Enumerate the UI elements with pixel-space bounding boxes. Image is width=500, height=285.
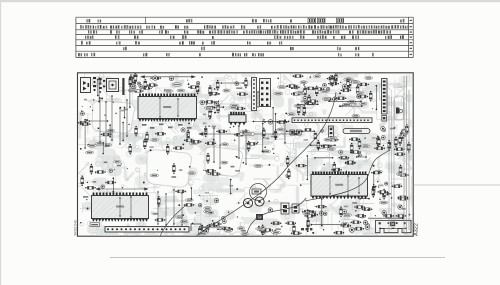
- bottom far right parts (resistors, capacitors, diodes): [380, 182, 408, 217]
- pour clearance lakes (centre-left): [92, 101, 243, 187]
- right edge vertical tracks: [404, 76, 409, 234]
- electrolytic capacitors C1/C2 (bottom centre cans): [243, 197, 264, 220]
- table row 5 entries: [81, 41, 412, 45]
- shield outline (bottom centre cutout): [191, 224, 226, 231]
- vertical link wires left-mid: [99, 95, 247, 169]
- link wires across IC bodies: [119, 91, 359, 217]
- trimmer T1 (circular part, bottom centre): [250, 184, 267, 201]
- ruled line below board: [110, 257, 445, 259]
- edge connector X2 (bottom left pin strip): [105, 227, 189, 232]
- solder pads / vias: [80, 75, 410, 234]
- sparse centre-left parts (resistors, capacitors, diodes): [101, 160, 196, 193]
- parts row under bar X1: [290, 126, 334, 140]
- table row 4 entries: [85, 35, 412, 39]
- scan edge left: [0, 0, 1, 285]
- wire links with solder dots: [84, 77, 377, 232]
- table row 1 column divider: [145, 17, 147, 23]
- table row 2 entries: [80, 25, 412, 29]
- svg-text:A322: A322: [414, 223, 420, 236]
- vertical module V1 (tall pinned strip): [252, 78, 257, 111]
- transistor module Q1 (top left box): [81, 78, 91, 93]
- connector X3 (bottom right boxed module): [368, 217, 411, 232]
- horizontal arrowed wire above U4: [96, 188, 148, 190]
- top right dense parts (resistors, capacitors, diodes): [314, 72, 373, 117]
- bottom right parts (resistors, capacitors, diodes): [316, 205, 373, 234]
- transistor module Q2 (top left box #2): [107, 79, 119, 92]
- parts right of U3 (resistors, capacitors, diodes): [372, 184, 388, 204]
- right margin tracks and module (far right): [389, 95, 404, 232]
- parts around U2 right (resistors, capacitors, diodes): [262, 113, 295, 140]
- top-left small parts (resistors, capacitors, diodes): [128, 73, 144, 92]
- scan edge top: [0, 0, 500, 2]
- parts right of V2 (resistors, capacitors, diodes): [274, 75, 319, 116]
- centre parts above trimmer (resistors, capacitors, diodes): [254, 150, 307, 179]
- horizontal module M1 (rounded bar under X1): [343, 129, 370, 134]
- IC U4 (large DIL IC, bottom left): [92, 193, 149, 222]
- horizontal linking wire centre (with arrows): [199, 133, 298, 136]
- parts column between Q1 and Q2: [93, 77, 105, 93]
- table row 7 entries: [78, 53, 412, 57]
- ruled line right of board: [413, 184, 500, 186]
- upper centre-right extra parts (resistors, capacitors, diodes): [294, 68, 351, 101]
- svg-text:3A322 040: 3A322 040: [73, 220, 77, 236]
- component designator labels: [83, 87, 406, 231]
- curved wire left mid: [160, 205, 186, 236]
- copper trace network (ground pour and tracks): [62, 65, 436, 260]
- arrowed wire above U1: [141, 76, 195, 87]
- table row 3 entries: [88, 30, 412, 34]
- IC U3 (DIL IC, bottom centre-right): [311, 172, 368, 200]
- designator labels under U1: [142, 124, 192, 129]
- svg-text:GA322: GA322: [393, 84, 406, 89]
- curved jumper across U3: [305, 150, 390, 201]
- far right top parts (resistors, capacitors, diodes): [394, 124, 408, 175]
- connector/breakout bar X1 (long pinned bar, centre right): [292, 118, 372, 123]
- printed circuit board outline A322: [78, 73, 414, 236]
- long curved jumper wire (centre): [196, 92, 336, 236]
- parts table frame: [76, 17, 413, 57]
- IC U2 (small DIL IC, centre top): [229, 112, 246, 126]
- parts left of V1 (resistors, capacitors, diodes): [200, 78, 248, 120]
- cluster right of centre-left (resistors, capacitors, diodes): [151, 128, 202, 155]
- curved wire bottom left of centre: [247, 198, 306, 233]
- IC U1 (large DIL IC, top left): [138, 94, 197, 122]
- parts right of U4 (resistors, capacitors, diodes): [155, 196, 195, 223]
- boxed parts bottom centre-right: [281, 203, 312, 230]
- vertical connector V3 (tall strip, right): [382, 79, 388, 122]
- designator label box under U4: [90, 223, 100, 227]
- right column mid parts (resistors, capacitors, diodes): [381, 127, 411, 177]
- bottom centre parts (resistors, capacitors, diodes): [198, 198, 318, 240]
- vertical wires right of U4: [157, 189, 182, 225]
- sparse centre parts (resistors, capacitors, diodes): [205, 153, 289, 178]
- left edge column parts (resistors, capacitors, diodes): [78, 112, 106, 190]
- table row 6 entries: [123, 47, 412, 51]
- vertical module V2 (boxed SIL component): [260, 79, 271, 107]
- table row 1 entries: [87, 19, 413, 23]
- parts under U2 (resistors, capacitors, diodes): [204, 126, 257, 151]
- mid-left parts (resistors, capacitors, diodes): [101, 126, 149, 155]
- right of centre dense parts (resistors, capacitors, diodes): [317, 136, 385, 174]
- parts above U1 (resistors, capacitors, diodes): [137, 76, 199, 94]
- table row 1 boxed type codes: [308, 18, 344, 23]
- dark bar right of Q2: [122, 78, 124, 95]
